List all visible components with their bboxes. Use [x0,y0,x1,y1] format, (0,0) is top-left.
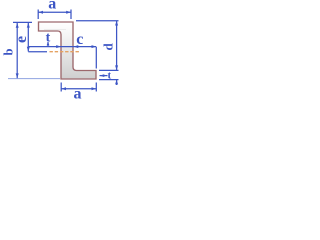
c extension line (foot right edge up) [95,47,97,69]
dimension a (top): extension line right [70,10,72,20]
dimension d: bottom arrowhead [115,65,118,70]
centroid line (orange dashed) [50,51,81,53]
svg-text:t: t [107,69,111,81]
dimension d: top arrowhead [115,21,118,26]
extension line from profile top edge to the right [76,20,119,22]
dimension b: top extension line [13,21,32,23]
dimension b: top arrowhead [16,23,19,28]
dimension a (bottom): extension line left [60,83,62,92]
centroid reference line (blue part) [28,51,47,53]
svg-text:d: d [100,43,115,51]
svg-text:a: a [74,86,82,102]
extension line at foot bottom (right) [99,79,119,81]
svg-text:e: e [13,36,30,43]
c right arrowhead [92,45,97,48]
dimension e: dimension line [27,23,29,52]
extension line at foot top (right) [99,69,119,71]
dimension a (top): dimension line [38,11,71,13]
dimension a (top): extension line left [37,10,39,20]
dimension b: bottom arrowhead [16,73,19,78]
t arrowhead at web left edge [56,45,61,48]
dimension t (right): lower outside arrow [116,80,118,85]
svg-text:a: a [48,0,56,13]
dimension t (right): leader arrow [100,75,108,77]
dimension b: dimension line [16,23,18,78]
dimension t/c line [29,46,97,48]
Z-profile outline [39,22,97,79]
dimension a (top): right arrowhead [66,11,71,14]
dimension a (bottom): left arrowhead [61,87,66,90]
c left arrowhead at web right edge [74,45,79,48]
svg-text:b: b [2,48,16,55]
svg-text:c: c [76,31,83,48]
dimension a (bottom): dimension line [61,88,96,90]
dimension a (top): left arrowhead [38,11,43,14]
dimension t (left): leader stub with up arrowhead [47,42,49,47]
hidden line in top flange [44,29,66,31]
dimension b: bottom extension line [8,78,60,80]
dimension e: top arrowhead [27,23,30,28]
dimension a (bottom): extension line right [95,83,97,92]
dimension e: bottom arrowhead [27,47,30,52]
dimension a (bottom): right arrowhead [92,87,97,90]
background [0,0,120,101]
dimension d: dimension line [116,21,118,70]
